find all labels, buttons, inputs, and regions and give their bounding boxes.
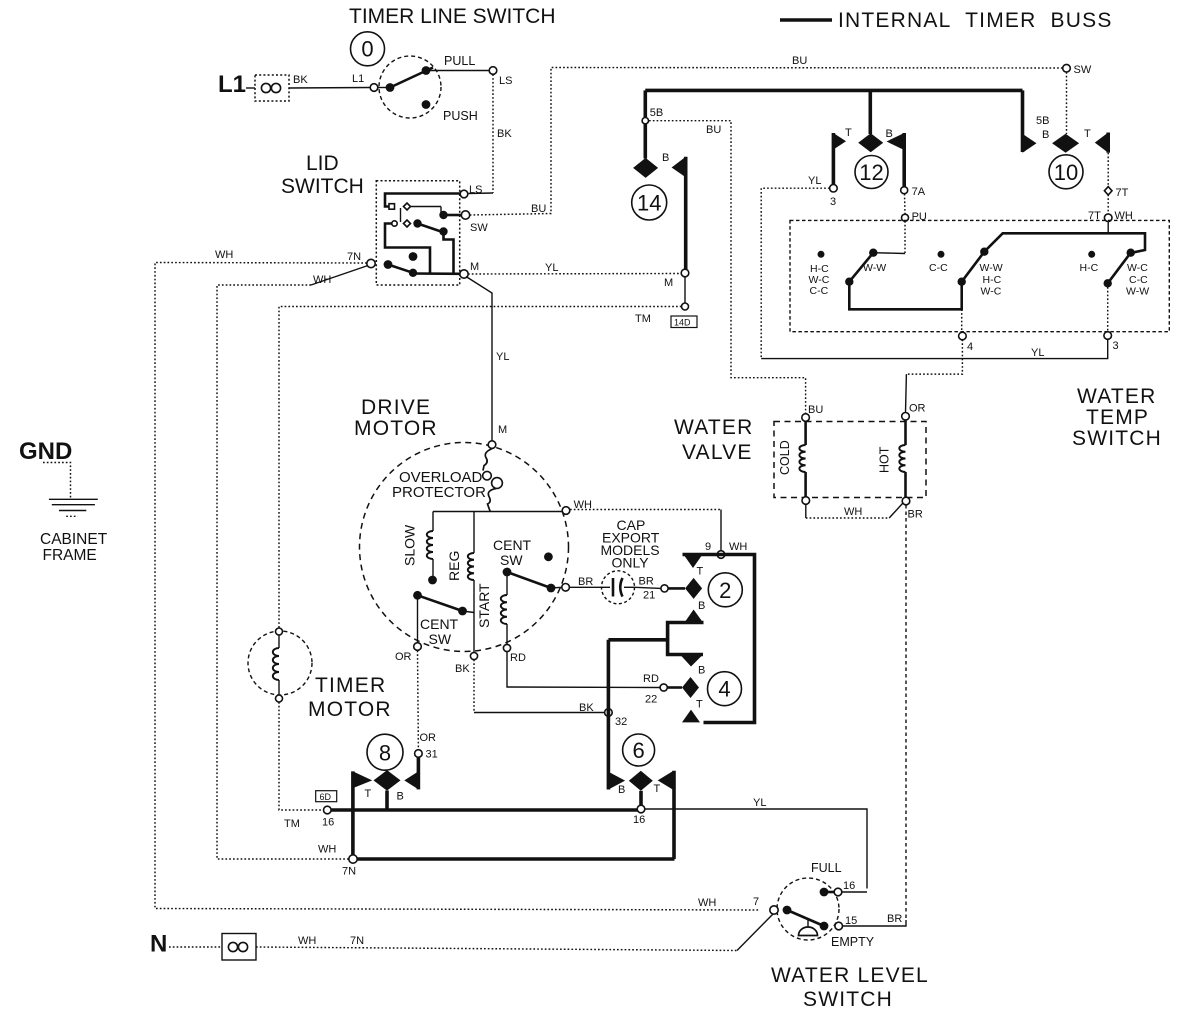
svg-text:BU: BU [808,404,823,416]
contact 12 diamond [858,133,883,152]
node 4 [961,309,963,331]
svg-text:EMPTY: EMPTY [831,935,875,949]
node PU [902,214,909,221]
timer contact 12 feed [868,90,872,134]
svg-text:WH: WH [313,274,331,286]
wire BR valve to water level switch [905,505,907,920]
node RD (motor) [503,644,510,651]
svg-text:TIMER LINE SWITCH: TIMER LINE SWITCH [349,5,556,28]
svg-text:OR: OR [909,403,926,415]
REG winding [473,512,475,554]
contact 14 diamond [643,124,647,159]
FULL contact [820,888,829,897]
svg-text:7: 7 [753,896,759,908]
svg-text:5B: 5B [1036,115,1049,127]
node 15 EMPTY [835,922,843,930]
node 22 [660,684,667,691]
svg-text:14: 14 [637,191,661,216]
internal timer buss (thick) [645,89,1022,93]
svg-text:C-C: C-C [810,285,829,297]
START winding [506,572,508,595]
lid switch dotted box [376,181,459,285]
svg-text:B: B [698,600,705,612]
svg-text:L1: L1 [218,71,246,98]
svg-text:14D: 14D [674,318,691,328]
contact 6 right flag T [658,771,674,790]
svg-text:8: 8 [379,741,391,766]
drive motor dashed circle [360,443,569,652]
svg-text:MOTOR: MOTOR [308,698,392,721]
timer cam 6 circle label [623,734,655,766]
timer line switch dashed circle [379,56,441,118]
wire node L1 to switch pivot [378,87,386,89]
timer cam 8 circle label [367,734,403,770]
svg-text:T: T [1084,128,1091,140]
svg-text:0: 0 [361,37,373,62]
svg-text:SWITCH: SWITCH [803,988,893,1011]
water temp switch 3 [1088,251,1095,258]
node 3 (water temp) [1107,287,1109,331]
svg-text:H-C: H-C [983,274,1002,286]
lid switch 7N arm [384,260,393,269]
contact 2 diamond [685,578,702,599]
svg-text:WH: WH [215,249,233,261]
timer cam 14 circle label [632,185,667,220]
svg-text:7N: 7N [342,866,356,878]
svg-text:WH: WH [698,897,716,909]
svg-text:WH: WH [298,935,316,947]
svg-text:SWITCH: SWITCH [281,175,364,198]
svg-text:TM: TM [284,818,300,830]
wire YL contact12 to water temp 3 [761,188,829,358]
svg-text:WATER: WATER [674,416,754,439]
svg-text:21: 21 [643,590,655,602]
node BR (motor) [562,584,570,592]
node 7A [901,187,908,194]
svg-text:SW: SW [500,552,523,568]
svg-text:H-C: H-C [1080,262,1099,274]
water temp switch dashed box [790,220,1169,331]
svg-text:7N: 7N [347,251,361,263]
contact 10 diamond [1052,134,1079,153]
wire N to connector [169,946,222,948]
svg-text:B: B [618,784,625,796]
svg-text:B: B [1042,129,1049,141]
node 31 [415,750,423,758]
connector tag 14D [671,316,697,328]
wire BK connector to node L1 [289,87,370,90]
svg-text:OR: OR [420,732,437,744]
node 16 (left) [324,806,332,814]
wire BK motor to node 32 [473,660,475,713]
svg-text:BR: BR [639,576,654,588]
timer cam 4 circle label [708,672,742,706]
node BK (motor) [470,652,477,659]
node L1 [370,84,378,92]
wire OR water temp 4 to valve [906,340,962,375]
svg-text:7N: 7N [350,935,364,947]
svg-text:YL: YL [496,351,509,363]
wire WH from lid 7N left and down to water level switch [155,263,760,911]
svg-text:YL: YL [808,175,821,187]
lid switch internal wiring [385,194,461,207]
node 3 (contact 12) [830,184,838,192]
node SW (lid) [461,211,469,219]
timer cam 10 circle label [1049,155,1083,189]
svg-text:4: 4 [967,341,973,353]
wire BU from lid SW up and across top [470,68,1063,216]
svg-text:31: 31 [426,749,438,761]
legend: internal timer buss sample line [780,18,832,22]
svg-text:SW: SW [1074,64,1092,76]
svg-text:W-W: W-W [1126,286,1149,298]
node 5B [642,118,648,124]
svg-text:YL: YL [1031,347,1044,359]
svg-text:VALVE: VALVE [682,441,753,464]
svg-text:10: 10 [1054,160,1078,185]
node M (contact 14) [681,269,689,277]
svg-text:16: 16 [843,880,855,892]
svg-text:SW: SW [470,222,488,234]
svg-text:7A: 7A [912,186,926,198]
svg-text:6: 6 [632,738,644,763]
connector tag 6D [316,791,337,802]
svg-text:BR: BR [908,509,923,521]
svg-text:15: 15 [845,915,857,927]
svg-text:TEMP: TEMP [1086,406,1149,429]
svg-text:BU: BU [531,203,546,215]
svg-text:22: 22 [645,694,657,706]
node 7T/WH [1104,214,1112,222]
water temp feed from WH node [1107,222,1109,233]
svg-text:LS: LS [469,184,482,196]
wire PULL contact to LS [426,70,489,72]
timer line switch arm [386,83,395,92]
svg-text:W-C: W-C [1127,262,1148,274]
COLD solenoid [804,422,807,446]
svg-text:9: 9 [705,541,711,553]
wire BK from LS down to lid switch [492,74,494,193]
thick link node9 around contacts 2/4 [683,555,755,723]
node SW and dotted feed [1063,64,1071,72]
svg-text:GND: GND [19,438,72,465]
svg-text:WH: WH [318,844,336,856]
svg-text:M: M [498,424,507,436]
svg-text:ONLY: ONLY [612,555,650,571]
svg-text:C-C: C-C [1129,274,1148,286]
svg-text:16: 16 [322,817,334,829]
svg-text:REG: REG [446,551,462,581]
water temp switch 1 [818,251,825,258]
node OR (motor) [414,643,422,651]
water temp bottom link [849,284,961,310]
svg-text:WH: WH [844,506,862,518]
svg-text:TIMER: TIMER [315,674,386,697]
svg-text:7T: 7T [1116,187,1129,199]
svg-text:SWITCH: SWITCH [1072,427,1162,450]
svg-text:WATER: WATER [1077,385,1157,408]
svg-text:SLOW: SLOW [402,524,418,566]
svg-text:B: B [886,128,893,140]
svg-text:BK: BK [455,663,470,675]
wire PU 7A to water temp [904,194,907,214]
svg-text:RD: RD [643,673,659,685]
svg-text:T: T [845,127,852,139]
svg-text:LS: LS [499,75,512,87]
timer cam 0 circle label [351,32,385,66]
svg-text:INTERNAL TIMER BUSS: INTERNAL TIMER BUSS [838,9,1113,32]
contact 10 left flag B [1023,134,1037,153]
svg-text:BU: BU [792,55,807,67]
svg-text:DRIVE: DRIVE [361,396,431,419]
svg-text:SW: SW [429,631,452,647]
node LS (lid) [460,190,468,198]
svg-text:T: T [697,566,704,578]
svg-text:WH: WH [729,541,747,553]
wire WH under valve [805,504,807,518]
svg-text:C-C: C-C [929,262,948,274]
svg-text:W-W: W-W [980,262,1003,274]
contact 8 diamond [374,770,401,791]
ground (cabinet frame) symbol [49,498,98,500]
svg-text:PUSH: PUSH [443,109,478,123]
svg-text:M: M [470,261,479,273]
svg-text:MOTOR: MOTOR [354,417,438,440]
contact 12 left flag T [833,133,846,150]
water temp internal link bar [984,233,1145,252]
timer motor dashed circle [248,631,312,695]
contact 12 right flag B [887,133,905,150]
node 7N (lid) [367,259,375,267]
svg-text:T: T [654,783,661,795]
contact 10 right flag T [1095,133,1108,153]
node 16 (right) [637,805,645,813]
svg-text:CENT: CENT [493,537,532,553]
timer contact 10 feed from buss [1021,90,1025,152]
water level switch dashed circle [777,878,839,940]
svg-text:BK: BK [497,128,512,140]
ground wire [43,463,71,498]
contact 14 right flag [672,157,686,178]
connector plug at N [222,934,256,961]
wire WH motor to node 9 [570,509,721,511]
contact 6 diamond [629,771,653,791]
svg-text:2: 2 [719,578,731,603]
svg-text:W-W: W-W [863,262,886,274]
wire RD motor to node 22 [507,652,660,688]
pressure dome [807,919,809,928]
svg-text:PROTECTOR: PROTECTOR [392,484,486,501]
TM buss thick [331,808,641,812]
thick link B2 to B4 and to node 32 [668,623,704,655]
wire WH 7N neutral to water level switch [256,947,737,951]
svg-text:HOT: HOT [878,446,892,473]
motor internal bus [433,511,566,513]
svg-text:COLD: COLD [778,440,792,475]
node 16 FULL [834,888,842,896]
timer motor coil [276,628,283,635]
svg-text:T: T [696,699,703,711]
node LS [489,67,497,75]
node M (lid) [460,270,468,278]
centrifugal switch left [413,591,422,600]
svg-text:5B: 5B [650,107,663,119]
svg-text:BR: BR [578,576,593,588]
svg-text:3: 3 [1113,340,1119,352]
svg-text:B: B [662,152,669,164]
node 7N (bus) [349,855,357,863]
svg-text:12: 12 [859,160,883,185]
overload protector [483,449,492,471]
svg-text:BK: BK [579,702,594,714]
wire BU from 5B to water valve [649,121,806,414]
wire YL lid M to contact 14 M [468,273,681,276]
svg-text:B: B [698,665,705,677]
SLOW winding [432,512,434,532]
svg-text:TM: TM [635,313,651,325]
wire 7T [1107,153,1109,187]
wire M to TM node [684,277,686,303]
wire TM to timer motor [279,307,682,631]
svg-text:YL: YL [753,797,766,809]
node 21 [661,585,668,592]
node WH (motor) [562,507,570,515]
svg-text:WATER LEVEL: WATER LEVEL [771,964,929,987]
svg-text:W-C: W-C [981,286,1002,298]
PUSH contact [422,100,431,109]
svg-text:BU: BU [706,124,721,136]
wire YL contact6 to water level FULL [645,809,868,889]
svg-text:LID: LID [306,152,339,175]
wire BR capacitor to node 21 [635,587,662,588]
contact 4 B flag [680,655,703,667]
timer cam 12 circle label [855,156,888,189]
wire TM timer motor to node 16 [279,702,323,810]
connector plug at L1 [255,75,289,101]
contact 8 left flag T [353,771,372,788]
node OR (valve) [902,413,910,421]
node 9 [717,551,725,559]
node 7 [770,906,778,914]
node 32 [605,709,613,717]
svg-text:L1: L1 [352,73,364,85]
svg-text:B: B [397,791,404,803]
svg-text:BR: BR [887,913,902,925]
svg-text:FULL: FULL [811,861,842,875]
svg-text:YL: YL [545,262,558,274]
svg-text:4: 4 [718,677,730,702]
timer cam 2 circle label [708,573,742,607]
svg-text:CABINET: CABINET [40,531,108,548]
svg-text:3: 3 [830,196,836,208]
svg-text:FRAME: FRAME [43,547,97,564]
capacitor (export models) [602,571,635,604]
svg-text:T: T [365,788,372,800]
svg-text:OR: OR [395,651,412,663]
wire OR motor to node 31 [417,651,420,750]
node BU (valve) [802,414,810,422]
node TM [682,303,689,310]
wire WH second run from 7N down to neutral bus [311,266,368,286]
water temp switch 2 [938,251,945,258]
svg-text:CENT: CENT [420,616,459,632]
water valve dashed box [774,422,926,498]
HOT solenoid [904,420,907,445]
svg-text:M: M [664,277,673,289]
svg-text:PULL: PULL [444,54,475,68]
svg-text:START: START [476,583,492,628]
contact 8 right flag B [417,757,421,789]
svg-text:RD: RD [510,652,526,664]
wire YL lid M down to drive motor [466,277,492,442]
node M (motor) [488,441,496,449]
neutral bus thick [353,857,675,861]
contact 4 diamond [682,677,699,698]
svg-text:N: N [150,931,167,958]
contact 6 left flag B with riser to node 32 [607,640,611,790]
svg-text:6D: 6D [320,792,332,802]
svg-text:16: 16 [633,814,645,826]
wire BR motor to capacitor [569,586,601,588]
svg-text:32: 32 [615,716,627,728]
contact 2 T flag [683,553,704,568]
timer contact 14 feed from buss [643,90,647,117]
wire L1 to connector [246,87,255,89]
node 7T [1104,187,1112,195]
water level switch arm [783,906,792,915]
svg-text:BK: BK [293,74,308,86]
svg-text:PU: PU [912,211,927,223]
